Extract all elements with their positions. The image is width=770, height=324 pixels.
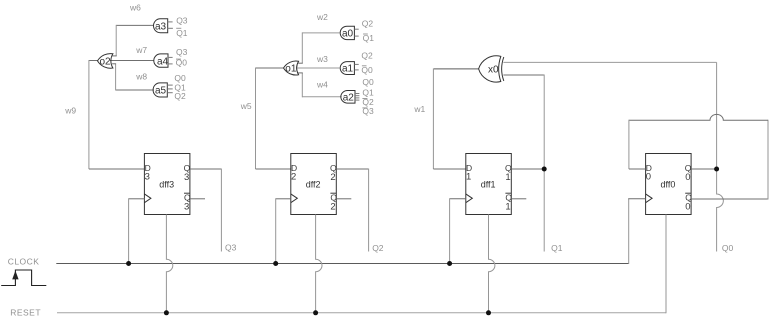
wire w1 <box>433 69 478 169</box>
xor gate x0 <box>479 56 501 82</box>
dff2 pin Qbar <box>330 192 336 194</box>
svg-text:w3: w3 <box>316 54 328 64</box>
svg-text:1: 1 <box>505 202 510 213</box>
dff2 clock pin triangle <box>291 194 298 203</box>
dff3 pin Qbar <box>184 192 190 194</box>
svg-text:Q2: Q2 <box>361 51 373 61</box>
clock pulse symbol <box>1 270 46 286</box>
svg-text:dff3: dff3 <box>159 180 174 190</box>
junction clock dff1 <box>447 261 452 266</box>
svg-text:3: 3 <box>184 202 189 213</box>
wire w4 <box>302 96 341 98</box>
dff0 box <box>646 154 692 215</box>
wire w5 <box>256 68 284 169</box>
wire dff1 reset branch with hop <box>489 215 495 313</box>
or gate o2 <box>98 54 113 69</box>
dff1 clock pin triangle <box>466 194 473 203</box>
svg-text:Q3: Q3 <box>362 106 374 116</box>
dff1 Qbar stub <box>511 198 526 200</box>
node Q1-bar (a0 input label) <box>363 33 368 35</box>
wire dff1 clock branch <box>450 198 466 200</box>
svg-text:Q1: Q1 <box>176 28 188 38</box>
wire dff0 Q to node <box>691 168 717 170</box>
svg-text:a1: a1 <box>342 64 354 75</box>
svg-text:w7: w7 <box>135 45 147 55</box>
svg-text:CLOCK: CLOCK <box>8 257 40 267</box>
wire dff2 clock branch <box>276 198 291 200</box>
pin stub a5 in3 <box>167 92 172 94</box>
dff2 Qbar stub <box>336 198 351 200</box>
wire x0 top input from Q0 <box>503 61 716 63</box>
svg-text:a3: a3 <box>155 21 167 32</box>
dff1 box <box>466 154 512 215</box>
pin stub a5 in1 <box>167 84 172 86</box>
svg-text:o1: o1 <box>285 64 297 75</box>
junction dff0 Q / Q0 <box>714 167 719 172</box>
node Q0-bar (a4 input label) <box>176 58 181 60</box>
svg-text:Q0: Q0 <box>361 65 373 75</box>
svg-text:0: 0 <box>685 172 690 183</box>
svg-text:3: 3 <box>184 172 189 183</box>
svg-text:2: 2 <box>330 172 335 183</box>
svg-text:0: 0 <box>646 171 651 182</box>
svg-text:1: 1 <box>466 171 471 182</box>
wire dff2 reset branch with hop <box>316 215 322 313</box>
wire dff2 Q to Q2 <box>336 168 368 170</box>
svg-text:w6: w6 <box>129 2 141 12</box>
svg-text:Q3: Q3 <box>225 242 237 252</box>
svg-text:a4: a4 <box>157 56 169 67</box>
svg-text:2: 2 <box>330 202 335 213</box>
reset trunk <box>57 312 666 314</box>
dff2 box <box>291 154 337 215</box>
xor gate x0 input arc <box>502 57 504 81</box>
dff3 clock pin triangle <box>144 194 151 203</box>
junction clock dff3 <box>126 261 131 266</box>
svg-text:a5: a5 <box>155 86 167 97</box>
svg-text:RESET: RESET <box>10 308 41 318</box>
node Q3-bar (a2 input label) <box>362 107 367 109</box>
wire Q0 vertical with hop over Qbar stub <box>717 62 724 251</box>
pin stub a3 in2 <box>168 27 173 29</box>
svg-text:w5: w5 <box>240 101 252 111</box>
pin stub a0 in2 <box>354 35 358 37</box>
svg-text:0: 0 <box>685 202 690 213</box>
junction dff1 Q / x0 input <box>542 167 547 172</box>
wire x0 bottom input from Q1 <box>503 74 544 76</box>
svg-text:Q0: Q0 <box>722 243 734 253</box>
wire dff1 Q to node <box>511 168 544 170</box>
svg-text:a2: a2 <box>343 93 355 104</box>
and gate a2 <box>341 91 355 104</box>
pin stub a2 in3 <box>355 97 359 99</box>
junction reset dff2 <box>313 310 318 315</box>
pin stub a4 in1 <box>168 56 173 58</box>
pin stub a1 in2 <box>354 69 358 71</box>
and gate a1 <box>340 62 354 75</box>
wire w6 <box>116 24 153 26</box>
or gate o1 <box>284 61 299 75</box>
wire dff3 Q to Q3 <box>190 168 222 170</box>
svg-text:Q2: Q2 <box>362 19 374 29</box>
pin stub a2 in4 <box>355 99 359 101</box>
svg-text:x0: x0 <box>488 64 499 75</box>
svg-text:Q2: Q2 <box>372 243 384 253</box>
node Q1-bar (a3 input label) <box>176 27 181 29</box>
svg-text:w1: w1 <box>413 104 425 114</box>
svg-text:Q3: Q3 <box>176 47 188 57</box>
dff1 pin Qbar <box>505 192 511 194</box>
dff0 pin Qbar <box>685 192 691 194</box>
and gate a4 <box>154 54 168 67</box>
svg-text:2: 2 <box>291 171 296 182</box>
pin stub a2 in1 <box>355 93 359 95</box>
dff3 box <box>144 154 190 215</box>
clock trunk <box>56 263 628 265</box>
clock pulse arrow <box>12 271 18 280</box>
svg-text:Q0: Q0 <box>176 58 188 68</box>
wire Q1 tail <box>543 169 545 252</box>
wire dff3 clock branch <box>129 198 145 200</box>
svg-text:Q3: Q3 <box>176 16 188 26</box>
junction clock dff2 <box>273 261 278 266</box>
svg-text:Q0: Q0 <box>362 77 374 87</box>
clock rise to dff0 <box>628 199 630 264</box>
svg-text:Q1: Q1 <box>363 33 375 43</box>
wire dff3 reset branch with hop <box>166 215 172 313</box>
svg-text:a0: a0 <box>342 29 354 40</box>
pin stub a3 in1 <box>168 21 173 23</box>
and gate a5 <box>153 83 167 97</box>
pin stub a0 in1 <box>354 28 358 30</box>
svg-text:Q2: Q2 <box>174 91 186 101</box>
svg-text:dff0: dff0 <box>661 180 676 190</box>
svg-text:o2: o2 <box>100 57 112 68</box>
dff3 Qbar stub <box>190 198 205 200</box>
pin stub a5 in2 <box>167 88 172 90</box>
reset rise to dff0 <box>665 215 667 314</box>
svg-text:w8: w8 <box>135 72 147 82</box>
svg-text:w2: w2 <box>316 12 328 22</box>
pin stub a4 in2 <box>168 63 173 65</box>
pin stub a2 in2 <box>355 95 359 97</box>
svg-text:dff1: dff1 <box>481 180 496 190</box>
wire w8 <box>116 89 154 91</box>
svg-text:w9: w9 <box>64 105 76 115</box>
wire w2 <box>302 32 339 34</box>
wire w3 <box>296 67 340 69</box>
wire w7 <box>110 60 154 62</box>
and gate a3 <box>154 19 168 33</box>
wire dff0 feedback Qbar to D <box>691 198 768 200</box>
dff0 clock pin triangle <box>646 194 653 203</box>
svg-text:3: 3 <box>145 171 150 182</box>
svg-text:Q1: Q1 <box>551 243 563 253</box>
svg-text:dff2: dff2 <box>306 180 321 190</box>
and gate a0 <box>340 26 354 39</box>
svg-text:1: 1 <box>505 172 510 183</box>
wire w9 <box>89 61 98 170</box>
svg-text:w4: w4 <box>316 79 328 89</box>
node Q2-bar (a2 input label) <box>362 98 367 100</box>
junction reset dff3 <box>164 310 169 315</box>
junction reset dff1 <box>486 310 491 315</box>
pin stub a1 in1 <box>354 63 358 65</box>
node Q0-bar (a1 input label) <box>362 65 367 67</box>
